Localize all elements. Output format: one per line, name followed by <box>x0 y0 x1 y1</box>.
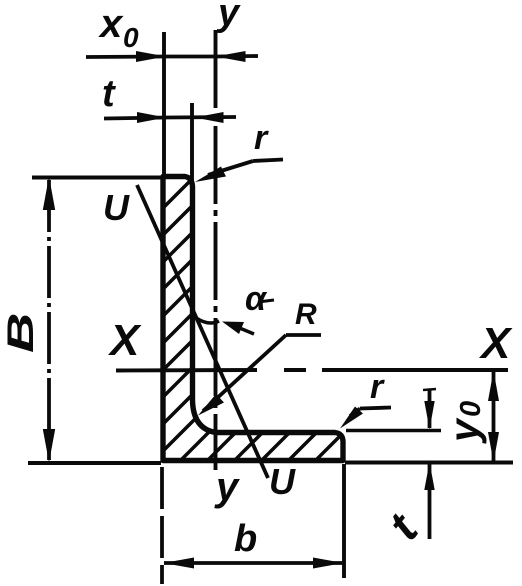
svg-text:X: X <box>107 316 142 365</box>
svg-text:α: α <box>245 280 268 318</box>
dimension b arrows <box>164 558 344 569</box>
svg-text:0: 0 <box>455 401 487 417</box>
extension line top of horizontal leg to right <box>346 429 441 433</box>
svg-text:U: U <box>269 461 296 502</box>
extension line inner edge above <box>190 103 194 186</box>
extension line bottom edge to left <box>28 461 161 465</box>
svg-text:b: b <box>234 518 257 560</box>
extension line bottom edge to right <box>345 461 513 465</box>
leader r right arrow <box>340 407 363 429</box>
axis U diagonal <box>137 185 268 478</box>
svg-text:t: t <box>102 73 116 115</box>
axis X horizontal dash-dot <box>116 368 508 372</box>
dimension t top arrows <box>137 112 224 123</box>
svg-text:y: y <box>214 465 240 509</box>
dimension B line <box>47 180 51 460</box>
leader r top arrow <box>195 167 226 183</box>
dimension x0 arrows <box>136 51 246 62</box>
leader R <box>203 335 321 411</box>
dimension y0 line <box>492 371 496 462</box>
dimension x0 line <box>86 56 258 57</box>
extension line left edge above <box>162 32 166 176</box>
dimension b line <box>164 561 343 565</box>
dimension y0 arrows <box>488 371 499 463</box>
svg-text:x: x <box>98 2 124 46</box>
leader R arrow <box>198 394 224 416</box>
dimension t top line <box>104 117 236 119</box>
svg-text:R: R <box>295 298 317 331</box>
svg-text:r: r <box>370 368 385 406</box>
svg-text:U: U <box>103 187 130 228</box>
svg-text:0: 0 <box>123 22 139 53</box>
leader r right <box>350 408 391 417</box>
extension line left edge downward dash-dot <box>160 467 164 584</box>
alpha leader arrow <box>236 327 254 335</box>
extension line leg end downward <box>342 464 346 578</box>
alpha angle arc <box>197 319 219 324</box>
angle section outline <box>163 177 343 461</box>
svg-text:r: r <box>254 119 269 157</box>
svg-text:X: X <box>478 319 513 368</box>
label y0 rotated <box>441 401 487 444</box>
svg-text:y: y <box>216 0 241 34</box>
dimension t right lower line <box>428 463 432 539</box>
leader r top <box>208 160 283 176</box>
svg-text:B: B <box>0 313 41 353</box>
dimension t right upper line <box>428 389 432 428</box>
svg-text:y: y <box>441 417 487 444</box>
alpha tail stroke <box>258 300 274 302</box>
dimension B arrows <box>43 177 55 463</box>
axis y vertical dash-dot <box>214 30 218 470</box>
extension line top edge to left <box>32 176 161 180</box>
hatching of angle section <box>0 160 522 470</box>
svg-text:t: t <box>378 503 429 549</box>
